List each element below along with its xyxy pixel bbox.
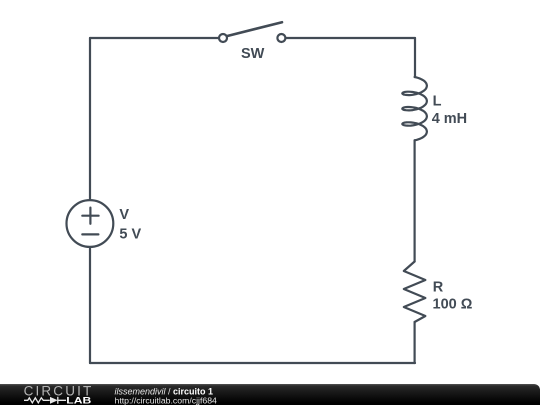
svg-text:LAB: LAB [66,395,91,405]
wire top-right segment [285,37,415,39]
wire right below resistor [414,322,416,363]
svg-text:5 V: 5 V [119,226,141,242]
logo diode bar [57,397,59,404]
voltage source V circle [67,200,114,247]
svg-text:R: R [433,280,444,296]
switch SW lever [227,22,282,36]
svg-text:http://circuitlab.com/cjjf684: http://circuitlab.com/cjjf684 [115,396,218,405]
svg-text:4 mH: 4 mH [432,111,467,127]
switch SW left contact [219,34,227,42]
svg-text:SW: SW [241,46,265,62]
svg-text:L: L [433,94,442,110]
wire top-left segment [90,37,219,39]
logo diode triangle [50,397,58,404]
logo resistor glyph [24,397,66,404]
wire right between inductor and resistor [414,140,416,261]
wire right above inductor [414,38,416,77]
switch SW right contact [277,34,285,42]
resistor R zigzag [404,262,426,323]
voltage source minus sign [82,233,98,235]
wire left upper [89,38,91,200]
svg-text:100 Ω: 100 Ω [433,297,473,313]
svg-text:V: V [119,207,129,223]
footer bar [0,384,540,405]
voltage source plus sign [82,208,98,224]
inductor L coil [402,77,427,140]
wire left lower [89,247,91,363]
wire bottom [90,362,415,364]
